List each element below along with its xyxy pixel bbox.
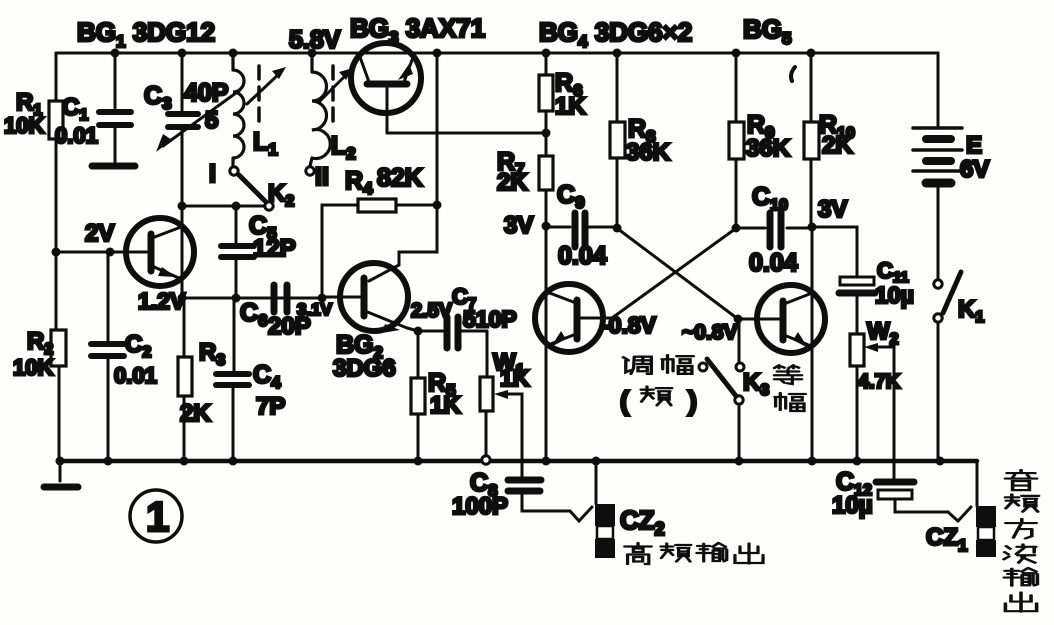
svg-text:3DG6: 3DG6 <box>333 355 396 382</box>
wire BG3 base to divider <box>387 132 546 135</box>
label left -0.8V <box>601 312 657 338</box>
figure number 1 <box>130 490 182 542</box>
wire rail to R4 junction <box>436 53 439 205</box>
svg-text:3V: 3V <box>818 196 847 223</box>
svg-text:3V: 3V <box>504 212 533 239</box>
label C4 value 7P <box>256 393 285 420</box>
capacitor C8 <box>508 480 570 511</box>
label BG1 2V <box>85 220 114 247</box>
label C1 value 0.01 <box>55 123 98 148</box>
label 等幅 <box>774 365 805 411</box>
wire R4 left drop <box>321 205 324 298</box>
wire bottom ground rail <box>58 459 977 464</box>
svg-text:0.01: 0.01 <box>55 123 98 148</box>
inductor L1 adjust arrow <box>247 67 286 104</box>
label W2 value 4.7K <box>858 371 901 393</box>
switch K3 upper contact <box>736 363 744 371</box>
label R7 value 2K <box>497 169 528 196</box>
svg-text:R3: R3 <box>199 339 225 369</box>
svg-text:-0.8V: -0.8V <box>601 312 657 338</box>
svg-text:CZ2: CZ2 <box>620 505 665 539</box>
node C5 top junction <box>232 202 241 211</box>
resistor R3 <box>178 298 192 460</box>
node BG4b rail <box>808 457 817 466</box>
switch K1 blade <box>943 272 961 313</box>
BG5 tick mark <box>791 67 795 81</box>
label C5 <box>249 212 277 243</box>
svg-text:510P: 510P <box>463 306 517 332</box>
wire C3 branch top <box>181 53 184 110</box>
label R3 value 2K <box>180 400 211 427</box>
resistor R9 <box>729 53 744 228</box>
svg-text:R2: R2 <box>27 328 53 358</box>
svg-text:C3: C3 <box>144 82 172 113</box>
svg-text:BG4 3DG6×2: BG4 3DG6×2 <box>539 17 692 51</box>
label C8 <box>470 469 498 500</box>
node BG2 base junction <box>318 294 327 303</box>
label C12 <box>836 468 872 499</box>
inductor L1 <box>233 53 244 166</box>
label R9 value 36K <box>746 135 791 162</box>
svg-text:BG5: BG5 <box>743 14 791 48</box>
label C3 value 40P <box>184 79 228 107</box>
svg-text:~0.8V: ~0.8V <box>682 321 737 344</box>
svg-text:2K: 2K <box>180 400 211 427</box>
resistor R4 <box>322 199 437 212</box>
node rail-left corner <box>56 457 65 466</box>
svg-text:E: E <box>966 132 982 159</box>
node W1 rail open terminal <box>482 456 490 464</box>
wire W1 wiper to C8 <box>513 394 522 476</box>
svg-text:L2: L2 <box>331 132 356 163</box>
label R6 value 1K <box>555 93 586 120</box>
node C2 top junction <box>106 248 115 257</box>
svg-text:0.04: 0.04 <box>558 242 607 270</box>
switch K3 blade <box>707 359 736 396</box>
svg-text:10K: 10K <box>4 113 44 138</box>
wire left column bottom <box>58 366 61 460</box>
wire top supply rail <box>56 52 938 55</box>
svg-text:10K: 10K <box>13 355 53 380</box>
svg-text:10µ: 10µ <box>832 492 873 519</box>
label C10 <box>752 183 788 214</box>
label R1 <box>16 89 42 119</box>
svg-text:7P: 7P <box>256 393 285 420</box>
label C8 value 100P <box>452 493 508 520</box>
node BG4a rail <box>542 457 551 466</box>
switch K1 lower contact <box>934 314 942 322</box>
capacitor C3 variable <box>156 90 240 152</box>
label CZ1 <box>926 524 967 555</box>
resistor R7 <box>539 133 553 226</box>
label C9 <box>557 181 585 212</box>
label R5 value 1K <box>430 392 461 419</box>
wire K3 pole to rail <box>738 404 741 460</box>
label L2 <box>331 132 356 163</box>
label R8 <box>628 115 656 146</box>
switch K3 wire from base <box>738 319 741 362</box>
node BG4b base junction <box>734 315 743 324</box>
connector CZ2 plug tip <box>570 507 592 521</box>
svg-text:10µ: 10µ <box>875 282 914 308</box>
battery E <box>913 128 962 280</box>
capacitor C7 <box>447 317 487 348</box>
wire C2 branch <box>107 252 110 460</box>
label C6 <box>240 299 268 330</box>
node R3 rail <box>180 457 189 466</box>
wire BG1 base to left column <box>56 251 110 254</box>
resistor R1 <box>49 101 63 139</box>
inductor L2 adjust arrow <box>320 68 353 101</box>
transistor BG4b right multivibrator <box>738 227 825 460</box>
transistor BG1 <box>110 218 194 286</box>
svg-text:1K: 1K <box>555 93 586 120</box>
resistor R6 <box>539 53 553 133</box>
label output 音频方波输出 vertical <box>1004 470 1039 612</box>
label R4 <box>345 167 373 198</box>
label contact II <box>315 163 329 191</box>
svg-text:5.8V: 5.8V <box>289 26 341 54</box>
svg-text:R4: R4 <box>345 167 373 198</box>
wire C3 bottom to K2 line and BG1 collector <box>181 129 184 298</box>
label C5 value 12P <box>253 235 296 262</box>
label right ~0.8V <box>682 321 737 344</box>
node L1 top rail <box>229 49 238 58</box>
wire rail right corner to CZ1 <box>976 461 979 506</box>
label E <box>966 132 982 159</box>
node rail R4 drop <box>433 49 442 58</box>
wire K2 pole line <box>182 205 264 208</box>
node C2 rail <box>104 457 113 466</box>
svg-text:1K: 1K <box>500 365 530 391</box>
switch K2 contact I <box>230 167 238 175</box>
svg-text:C4: C4 <box>253 361 281 392</box>
resistor R8 <box>610 53 625 226</box>
svg-text:0.01: 0.01 <box>114 363 157 388</box>
label output 高频输出 <box>625 543 763 564</box>
svg-text:C6: C6 <box>240 299 268 330</box>
svg-text:0.04: 0.04 <box>749 249 798 277</box>
svg-text:): ) <box>688 386 697 416</box>
svg-text:1K: 1K <box>430 392 461 419</box>
node L2 top rail <box>308 49 317 58</box>
node C9 R8 junction <box>613 224 622 233</box>
resistor R2 <box>51 330 66 366</box>
label CZ2 <box>620 505 665 539</box>
label BG4 3DG6x2 <box>539 17 692 51</box>
switch K2 blade <box>239 175 265 201</box>
transistor BG2 <box>322 263 418 333</box>
switch K1 upper contact <box>934 280 942 288</box>
label C1 <box>62 94 88 124</box>
svg-text:2V: 2V <box>85 220 114 247</box>
wire W2 wiper to C12 <box>882 347 894 478</box>
transistor BG4a left multivibrator <box>535 226 612 460</box>
svg-text:3.1V: 3.1V <box>297 300 333 319</box>
wire left column top (R1 branch) <box>55 53 58 101</box>
node base junction left <box>52 248 61 257</box>
switch K2 contact II <box>306 167 314 175</box>
label W1 <box>493 349 525 379</box>
switch K3 pole contact <box>735 396 743 404</box>
svg-text:K3: K3 <box>743 369 769 399</box>
node R9 C10 junction <box>732 224 741 233</box>
label C10 value 0.04 <box>749 249 798 277</box>
label BG2 type 3DG6 <box>333 355 396 382</box>
label 3.1V <box>297 300 333 319</box>
label 3V left <box>504 212 533 239</box>
wire C1 branch top <box>114 53 117 108</box>
node 3V right junction <box>808 223 817 232</box>
capacitor C1 <box>92 112 135 166</box>
node R6 R7 BG3 junction <box>542 129 551 138</box>
label R3 <box>199 339 225 369</box>
capacitor C2 <box>91 344 124 356</box>
label W2 <box>867 318 899 348</box>
label 3V right <box>818 196 847 223</box>
label C2 <box>125 331 151 361</box>
svg-text:6V: 6V <box>960 156 989 183</box>
label C11 <box>877 258 909 286</box>
node W2 rail <box>853 457 862 466</box>
label R5 <box>428 369 456 400</box>
node R8 top rail <box>613 49 622 58</box>
wire cross-coupling C10 to left base <box>612 229 735 318</box>
label E value 6V <box>960 156 989 183</box>
svg-text:12P: 12P <box>253 235 296 262</box>
label 5.8V <box>289 26 341 54</box>
capacitor C12 electrolytic <box>876 482 948 512</box>
svg-text:2K: 2K <box>497 169 528 196</box>
svg-text:L1: L1 <box>253 128 278 159</box>
svg-text:K1: K1 <box>958 296 984 326</box>
wire BG2 emitter node <box>418 330 443 333</box>
switch K2 pole contact <box>265 202 273 210</box>
ground <box>44 461 78 487</box>
svg-text:II: II <box>315 163 329 191</box>
svg-text:2K: 2K <box>822 132 853 159</box>
resistor R5 <box>411 331 425 460</box>
svg-text:(: ( <box>620 386 629 416</box>
label BG3 3AX71 <box>350 13 485 47</box>
label C9 value 0.04 <box>558 242 607 270</box>
wire C11 branch from 3V <box>812 227 857 277</box>
node C3 / K2 line junction <box>178 202 187 211</box>
label C2 value 0.01 <box>114 363 157 388</box>
node C1 top rail <box>111 49 120 58</box>
label R8 value 36K <box>626 139 671 166</box>
capacitor C6 <box>274 285 287 312</box>
label 1.2V <box>138 288 186 314</box>
svg-text:36K: 36K <box>746 135 791 162</box>
wire 1.2V emitter line <box>182 297 322 300</box>
label BG5 <box>743 14 791 48</box>
svg-text:BG1 3DG12: BG1 3DG12 <box>77 17 215 51</box>
svg-text:100P: 100P <box>452 493 508 520</box>
label contact I <box>209 160 216 188</box>
potentiometer W1 <box>480 331 513 455</box>
node BG1 emitter junction <box>178 294 187 303</box>
node C4 rail <box>229 457 238 466</box>
label C7 <box>452 284 476 312</box>
node R10 top rail <box>807 49 816 58</box>
wire battery top drop <box>937 53 940 127</box>
capacitor C4 <box>216 298 249 460</box>
svg-text:40P: 40P <box>184 79 228 107</box>
inductor L2 core dashed <box>331 66 335 128</box>
connector CZ1 plug tip <box>948 507 971 521</box>
wire CZ2 drop <box>595 461 598 504</box>
node 3V left junction <box>542 222 551 231</box>
node CZ2 rail junction <box>592 457 601 466</box>
svg-text:C10: C10 <box>752 183 788 214</box>
switch K3 open contact <box>699 363 707 371</box>
label R6 <box>555 69 583 100</box>
node R4 right junction <box>433 201 442 210</box>
node BG2 emitter junction <box>414 327 423 336</box>
svg-text:C1: C1 <box>62 94 88 124</box>
label C4 <box>253 361 281 392</box>
capacitor C11 electrolytic <box>839 277 875 334</box>
label K3 <box>743 369 769 399</box>
label BG1 3DG12 <box>77 17 215 51</box>
wire left column middle <box>55 139 58 330</box>
label C7 value 510P <box>463 306 517 332</box>
wire cross-coupling C9 to right base <box>618 229 738 319</box>
label R10 value 2K <box>822 132 853 159</box>
label R2 value 10K <box>13 355 53 380</box>
connector CZ2 <box>595 504 615 558</box>
label (频) <box>620 386 697 416</box>
svg-text:K2: K2 <box>268 180 294 210</box>
potentiometer W2 <box>850 334 882 460</box>
capacitor C5 <box>221 206 254 298</box>
label C11 value 10u <box>875 282 914 308</box>
svg-text:5: 5 <box>205 107 218 134</box>
svg-text:82K: 82K <box>377 164 423 192</box>
label R9 <box>747 111 775 142</box>
label R10 <box>819 111 855 142</box>
node C3 top rail <box>178 49 187 58</box>
capacitor C9 <box>546 213 617 247</box>
label C3 value 5 <box>205 107 218 134</box>
svg-text:1: 1 <box>146 493 169 540</box>
svg-text:W2: W2 <box>867 318 899 348</box>
svg-text:C9: C9 <box>557 181 585 212</box>
label C12 value 10u <box>832 492 873 519</box>
svg-text:C2: C2 <box>125 331 151 361</box>
wire K1 to rail <box>937 322 940 460</box>
label R7 <box>497 148 525 179</box>
label R2 <box>27 328 53 358</box>
label R4 value 82K <box>377 164 423 192</box>
label K2 <box>268 180 294 210</box>
capacitor C10 <box>736 213 812 247</box>
resistor R10 <box>804 53 819 226</box>
label BG2 <box>336 331 383 362</box>
inductor L1 core dashed <box>257 66 261 128</box>
wire BG2 collector staircase <box>369 205 437 281</box>
node R5 rail <box>414 457 423 466</box>
label 2.5V <box>411 300 453 322</box>
svg-text:I: I <box>209 160 216 188</box>
connector CZ1 <box>976 506 996 557</box>
label C6 value 20P <box>268 313 311 340</box>
node R9 top rail <box>732 49 741 58</box>
node R6 top rail <box>542 49 551 58</box>
label R1 value 10K <box>4 113 44 138</box>
node C5 bottom junction <box>232 294 241 303</box>
node K1 rail <box>936 457 945 466</box>
label K1 <box>958 296 984 326</box>
label C3 <box>144 82 172 113</box>
inductor L2 <box>310 53 330 166</box>
node K3 rail <box>735 457 744 466</box>
label W1 value 1K <box>500 365 530 391</box>
label 调幅 <box>623 355 693 374</box>
svg-text:BG3 3AX71: BG3 3AX71 <box>350 13 485 47</box>
label L1 <box>253 128 278 159</box>
svg-text:36K: 36K <box>626 139 671 166</box>
transistor BG3 <box>351 43 421 133</box>
svg-text:CZ1: CZ1 <box>926 524 967 555</box>
